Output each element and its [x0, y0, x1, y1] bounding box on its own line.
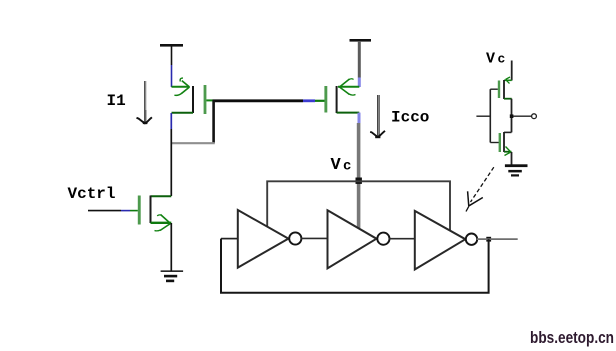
node small inverter output [510, 114, 514, 118]
wire feedback loop [221, 239, 489, 293]
svg-text:bbs.eetop.cn: bbs.eetop.cn [530, 329, 614, 347]
wire common gate vertical [489, 89, 491, 142]
wire M5 source to ground [511, 152, 513, 165]
wire U2 out to U3 in [389, 238, 415, 240]
wire output lead small inverter [513, 115, 532, 117]
wire gate lead M5 [490, 142, 499, 144]
terminal open circle [532, 114, 537, 119]
transistor M3 (PMOS mirror output, gate on left) [324, 79, 359, 113]
node Vc junction dot [356, 178, 362, 184]
wire M1 drain down to M2 [170, 113, 172, 129]
svg-text:I1: I1 [107, 92, 126, 110]
wire top stub small inverter [511, 61, 513, 81]
wire gate lead M4 [490, 88, 498, 90]
transistor M1 (diode-connected PMOS, gate on right) [172, 78, 213, 114]
svg-text:c: c [498, 52, 506, 67]
annotation arrow dashed [466, 167, 494, 211]
transistor M4 (small PMOS) [498, 77, 512, 99]
wire M2 source to ground [170, 223, 172, 271]
wire input U1 [221, 238, 237, 240]
wire supply rail of inverters [267, 181, 450, 230]
wire diode tie gate-to-drain [212, 101, 215, 144]
transistor M2 (NMOS, Vctrl) [138, 196, 172, 231]
wire VDD1 to M1 source [171, 47, 173, 66]
svg-text:Icco: Icco [391, 109, 429, 127]
ground GND2 [505, 164, 528, 176]
wire U1 out to U2 in [301, 237, 327, 239]
ground GND1 [161, 270, 184, 282]
svg-text:V: V [486, 50, 495, 67]
wire VDD2 to M3 source [358, 41, 361, 78]
wire M4 drain down [511, 99, 513, 133]
inverter U3 [415, 211, 477, 270]
transistor M5 (small NMOS) [499, 132, 512, 156]
node output junction [486, 237, 491, 242]
wire Vctrl input lead [88, 210, 121, 212]
wire output stub right [477, 238, 518, 240]
power VDD bar right [350, 39, 372, 42]
wire input lead small inverter [476, 115, 490, 117]
svg-text:c: c [343, 159, 351, 175]
svg-text:V: V [331, 156, 342, 175]
inverter U2 [328, 210, 390, 268]
inverter U1 [238, 210, 302, 268]
svg-text:Vctrl: Vctrl [68, 185, 116, 203]
current arrow I1 [137, 81, 152, 124]
power VDD bar left [160, 44, 183, 47]
net Vc wire down [358, 113, 361, 123]
wire gate line M1-M2 [213, 99, 304, 102]
current arrow Icco [370, 95, 385, 138]
